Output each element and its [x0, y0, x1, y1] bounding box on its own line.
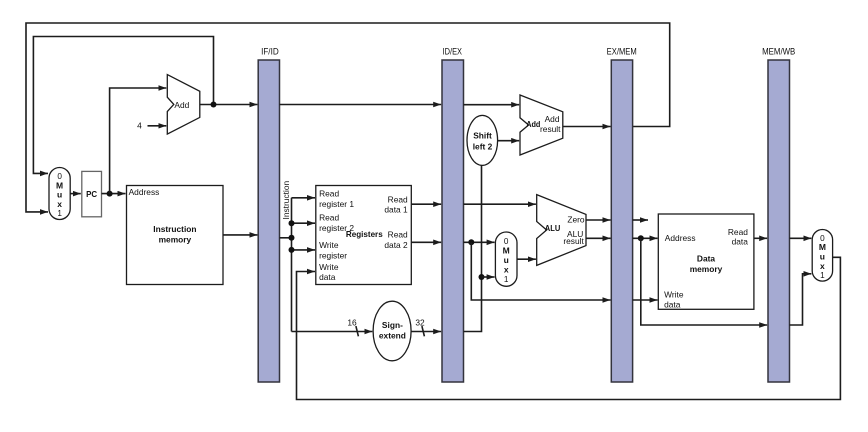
register PC [82, 171, 102, 216]
bus width slash 32 [422, 326, 425, 336]
wire sign-extend output to ID/EX [411, 331, 441, 333]
svg-text:PC: PC [86, 189, 97, 199]
ALU U1 [537, 195, 586, 266]
svg-text:Read: Read [728, 227, 748, 237]
svg-text:Add: Add [174, 100, 189, 110]
wire Read data 2 down to EX/MEM (memory write data) [471, 242, 610, 300]
svg-text:result: result [540, 124, 561, 134]
mux M3 (mem to reg) [812, 230, 832, 282]
wire to Read register 1 [292, 197, 316, 199]
svg-text:left 2: left 2 [473, 142, 493, 152]
wire PC+4 to EX Add top input [464, 104, 520, 106]
wire write data to data memory [633, 299, 658, 301]
svg-text:32: 32 [415, 318, 425, 328]
svg-text:Read: Read [319, 188, 339, 198]
wire write-back from mux M3 to registers Write data [297, 257, 841, 399]
svg-text:data: data [319, 272, 336, 282]
svg-text:x: x [57, 199, 62, 209]
wire PC+4 through IF/ID to ID/EX [280, 104, 442, 106]
wire Read data 2 to mux M2 input 0 [464, 241, 495, 243]
adder Add (branch target) [520, 95, 563, 155]
wire to sign-extend [292, 331, 373, 333]
svg-text:memory: memory [159, 234, 192, 244]
pipeline register MEM/WB [762, 47, 795, 382]
svg-text:16: 16 [347, 318, 357, 328]
svg-text:4: 4 [137, 120, 142, 130]
wire instruction distribution vertical [291, 198, 293, 332]
wire read data to MEM/WB [754, 237, 767, 239]
wire PC+4 feedback (IF Add output to PC mux input 0) [33, 37, 213, 174]
svg-text:ID/EX: ID/EX [443, 47, 463, 57]
svg-text:Write: Write [319, 262, 339, 272]
node IF Add output junction [211, 102, 217, 108]
wire IF Add output to IF/ID [200, 104, 258, 106]
svg-text:memory: memory [690, 264, 723, 274]
bus width slash 16 [356, 326, 359, 336]
registers file [316, 186, 412, 285]
wire ALU result to EX/MEM [586, 237, 611, 239]
svg-text:Write: Write [319, 240, 339, 250]
wire read data to mux M3 input 0 [790, 237, 812, 239]
wire Read data 2 to ID/EX [411, 241, 441, 243]
shift left 2 unit [467, 115, 498, 165]
svg-text:Address: Address [665, 233, 696, 243]
svg-text:Instruction: Instruction [153, 224, 196, 234]
wire mux M1 to PC [70, 193, 81, 195]
svg-text:ALU: ALU [545, 223, 561, 233]
wire shift left 2 to EX Add bottom input [498, 140, 520, 142]
svg-text:Data: Data [697, 254, 715, 264]
wire instruction memory output to IF/ID [223, 234, 257, 236]
instruction memory [127, 186, 224, 285]
svg-text:extend: extend [379, 331, 406, 341]
svg-text:Shift: Shift [473, 131, 492, 141]
svg-text:EX/MEM: EX/MEM [607, 47, 637, 57]
sign-extend unit [373, 301, 411, 361]
node Read data 2 branch [468, 239, 474, 245]
svg-text:IF/ID: IF/ID [261, 47, 279, 57]
pipeline register IF/ID [258, 47, 279, 382]
svg-text:data 1: data 1 [384, 205, 408, 215]
node instruction junction read register 2 [289, 220, 295, 226]
node immediate branch to ALUSrc mux [479, 274, 485, 280]
svg-text:Registers: Registers [346, 229, 383, 239]
wire ALU Zero to EX/MEM [586, 219, 611, 221]
svg-text:M: M [503, 245, 510, 255]
svg-text:Add: Add [526, 119, 540, 129]
svg-text:register: register [319, 250, 347, 260]
svg-text:Write: Write [664, 290, 684, 300]
wire instruction out of IF/ID [280, 237, 292, 239]
svg-text:1: 1 [820, 271, 825, 280]
wire Read data 1 to ALU [464, 203, 536, 205]
svg-text:register 1: register 1 [319, 199, 354, 209]
wire PC to instruction memory Address [102, 193, 126, 195]
wire ALU result bypass down to MEM/WB [641, 238, 767, 325]
wire mux M2 to ALU bottom input [517, 258, 536, 260]
svg-text:Read: Read [319, 213, 339, 223]
wire branch-target feedback (EX/MEM to PC mux input 1) [26, 23, 670, 212]
mux M2 (ALU source) [495, 232, 517, 286]
svg-text:MEM/WB: MEM/WB [762, 47, 795, 57]
wire Read data 1 to ID/EX [411, 203, 441, 205]
pipeline register EX/MEM [607, 47, 637, 382]
wire constant 4 to IF Add bottom input [148, 125, 167, 127]
wire sign-extended immediate up to shift left 2 [464, 166, 482, 332]
svg-text:data 2: data 2 [384, 240, 408, 250]
wire ALU result to data memory Address [633, 237, 658, 239]
svg-text:data: data [732, 237, 749, 247]
svg-text:1: 1 [504, 275, 509, 284]
wire immediate to mux M2 input 1 [482, 276, 495, 278]
wire EX Add result to EX/MEM [563, 126, 611, 128]
wire PC to IF Add top input [110, 88, 167, 194]
svg-text:Address: Address [129, 187, 160, 197]
svg-text:data: data [664, 299, 681, 309]
pipeline register ID/EX [442, 47, 464, 382]
svg-text:Add: Add [545, 114, 560, 124]
svg-text:x: x [820, 261, 825, 271]
svg-text:Zero: Zero [567, 214, 585, 224]
adder Add (IF stage PC+4) [167, 75, 200, 135]
wire ALU result to mux M3 input 1 [790, 274, 812, 325]
wire to Read register 2 [292, 222, 316, 224]
svg-text:Read: Read [388, 194, 408, 204]
wire Zero stub out of EX/MEM [633, 219, 648, 221]
svg-text:result: result [563, 236, 584, 246]
node ALU result branch [638, 235, 644, 241]
svg-text:u: u [504, 255, 509, 265]
svg-text:x: x [504, 265, 509, 275]
wire to Write register [292, 249, 316, 251]
svg-text:Read: Read [388, 230, 408, 240]
node instruction junction write register [289, 247, 295, 253]
data memory [658, 214, 754, 309]
svg-text:Sign-: Sign- [382, 320, 403, 330]
svg-text:Instruction: Instruction [281, 181, 291, 220]
svg-text:1: 1 [57, 209, 62, 218]
mux M1 (PC source) [49, 168, 70, 220]
node instruction junction main [289, 235, 295, 241]
node PC output junction [107, 191, 113, 197]
